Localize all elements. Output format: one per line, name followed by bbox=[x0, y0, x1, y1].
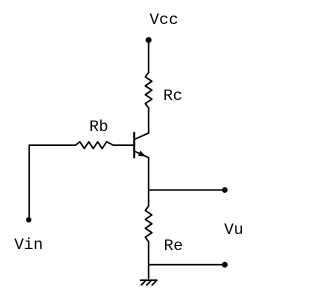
transistor Q1 emitter arrow bbox=[138, 151, 146, 157]
wire Rc to collector bbox=[148, 108, 150, 133]
node Vcc terminal dot bbox=[146, 37, 152, 43]
resistor Re bbox=[145, 206, 152, 242]
resistor Rc bbox=[145, 72, 152, 108]
resistor Rb bbox=[75, 142, 113, 149]
wire base to Rb bbox=[113, 144, 133, 146]
transistor Q1 emitter lead bbox=[135, 151, 149, 157]
node output top terminal dot bbox=[222, 187, 228, 193]
wire emitter down bbox=[148, 158, 150, 206]
wire Rb to Vin corner bbox=[29, 145, 75, 220]
wire emitter junction to output bbox=[149, 189, 225, 191]
wire Re to ground bbox=[148, 242, 150, 280]
svg-text:Vin: Vin bbox=[14, 236, 43, 254]
svg-text:Vcc: Vcc bbox=[150, 11, 179, 29]
svg-text:Vu: Vu bbox=[224, 221, 243, 239]
node Vin terminal dot bbox=[26, 217, 31, 222]
node output bottom terminal dot bbox=[222, 262, 228, 268]
transistor Q1 collector lead bbox=[135, 133, 149, 139]
ground bbox=[141, 280, 157, 285]
wire bottom junction to output bbox=[149, 264, 225, 266]
transistor Q1 base bar bbox=[133, 133, 135, 158]
svg-text:Rc: Rc bbox=[163, 87, 182, 105]
svg-text:Re: Re bbox=[164, 237, 183, 255]
wire Vcc to Rc bbox=[148, 40, 150, 72]
svg-text:Rb: Rb bbox=[89, 118, 108, 136]
